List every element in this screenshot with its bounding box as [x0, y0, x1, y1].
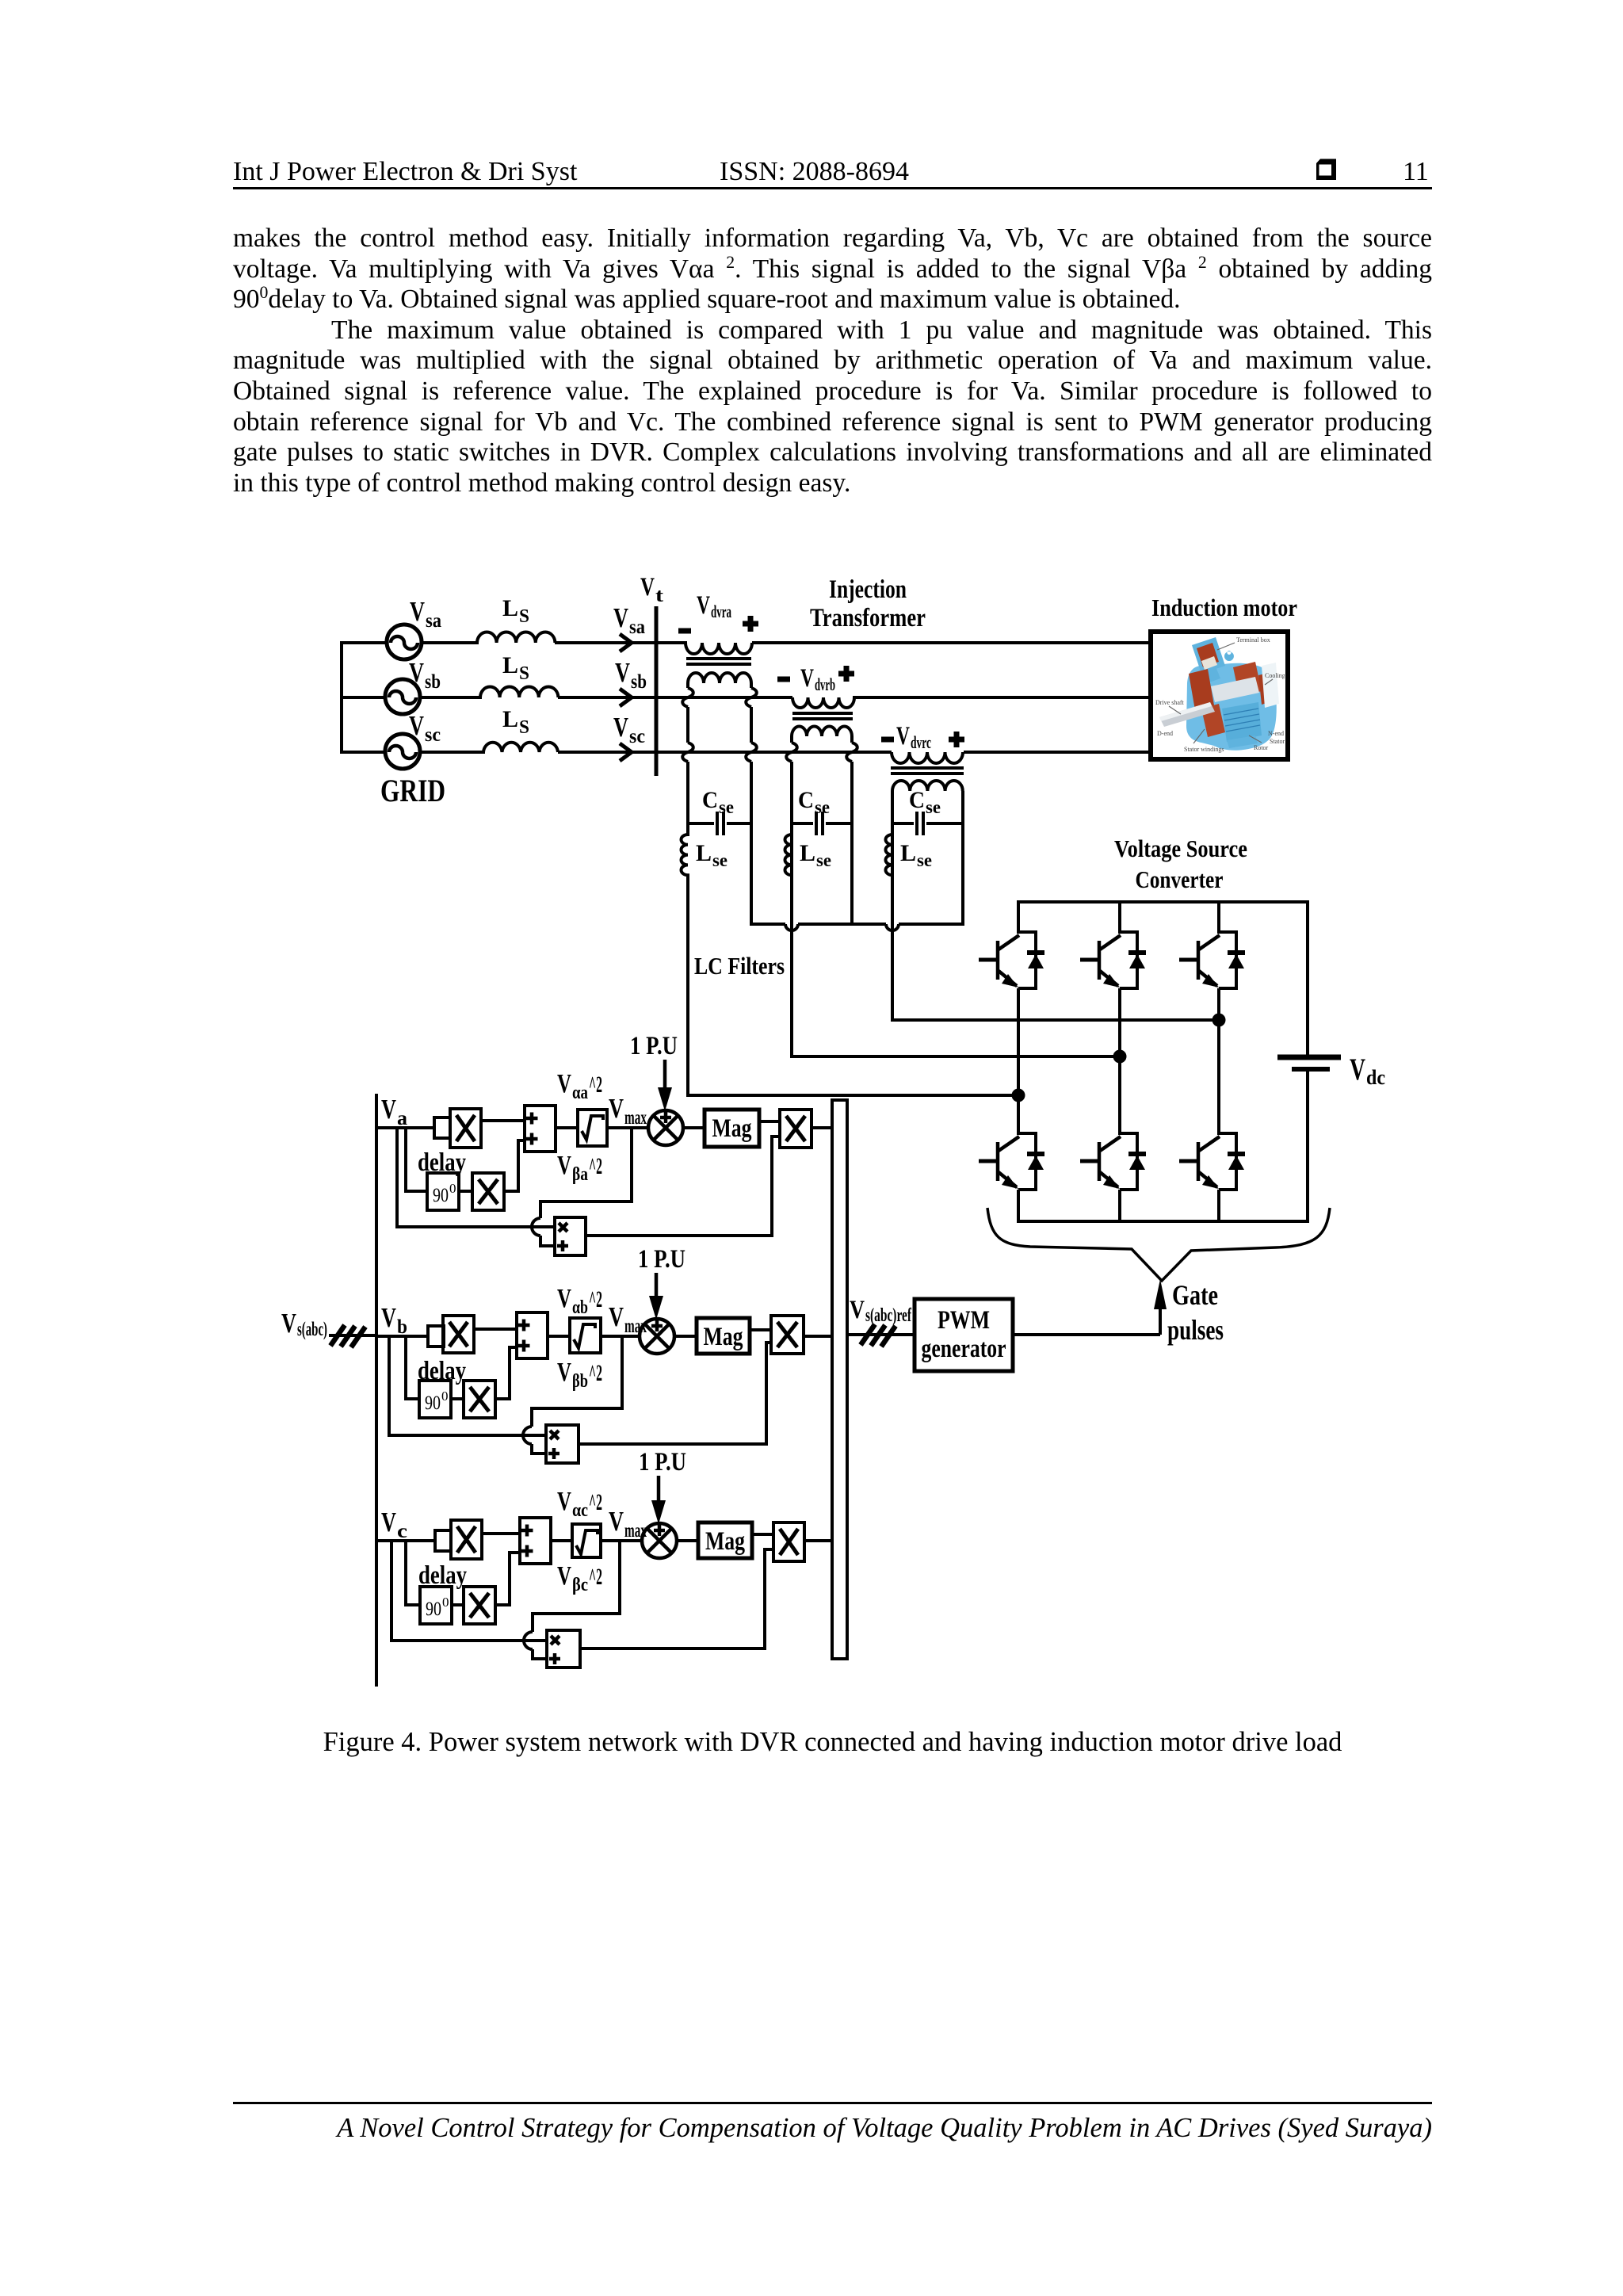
battery Vdc plate short — [1292, 1067, 1330, 1072]
node Vt bus bar — [655, 606, 659, 776]
transformer T2 secondary — [792, 727, 852, 737]
label minus Vdvrc — [881, 737, 894, 743]
block Mag b — [697, 1318, 750, 1354]
svg-text:c: c — [397, 1521, 407, 1542]
IGBT Q5 with diode — [1179, 932, 1245, 988]
wire Va from bus — [376, 1126, 434, 1129]
junction dot VSC leg2 — [1113, 1050, 1127, 1064]
wire phase B to motor — [853, 696, 1152, 699]
svg-text:Drive shaft: Drive shaft — [1155, 699, 1185, 706]
wire feedback out c — [580, 1549, 773, 1648]
arrow chevron Vsb — [620, 689, 632, 706]
wire tap2 c — [391, 1541, 547, 1641]
svg-text:L: L — [502, 595, 518, 621]
svg-text:Mag: Mag — [705, 1527, 745, 1556]
svg-text:se: se — [719, 797, 734, 817]
svg-text:a: a — [397, 1108, 408, 1129]
svg-text:s(abc): s(abc) — [297, 1319, 327, 1340]
delay 90 block b — [419, 1381, 451, 1418]
svg-text:S: S — [519, 606, 529, 627]
wire control left bus — [375, 1094, 378, 1687]
transformer T2 primary — [792, 697, 854, 708]
wire VSC top bus — [1017, 900, 1309, 904]
svg-text:Voltage Source: Voltage Source — [1114, 835, 1247, 862]
svg-text:V: V — [557, 1487, 571, 1516]
svg-text:βa: βa — [572, 1164, 588, 1185]
summer block c — [520, 1518, 551, 1564]
wire T1 secondary right leg — [746, 683, 757, 926]
summer block b — [517, 1312, 548, 1358]
transformer T1 core — [686, 657, 751, 660]
transformer T3 secondary — [892, 781, 963, 791]
port stub b — [428, 1326, 444, 1347]
wire LC B to VSC leg2 — [790, 1055, 1120, 1058]
svg-text:Transformer: Transformer — [810, 604, 926, 632]
wire phase A to transformer — [555, 641, 687, 644]
svg-text:V: V — [609, 1301, 624, 1332]
wire T3 secondary left leg — [891, 791, 894, 1022]
svg-text:V: V — [381, 1507, 396, 1538]
svg-text:Mag: Mag — [712, 1114, 752, 1143]
slash marks Vsabc — [330, 1325, 365, 1347]
svg-text:se: se — [926, 797, 941, 817]
svg-text:^2: ^2 — [589, 1489, 602, 1515]
svg-text:S: S — [519, 663, 529, 684]
arrow 1PU c — [657, 1476, 661, 1502]
wire X2-busbar c — [804, 1539, 832, 1542]
voltage source Vsa — [387, 625, 422, 659]
svg-text:V: V — [609, 1093, 624, 1124]
wire phase C to motor — [964, 751, 1152, 754]
wire circle-Mag c — [677, 1539, 698, 1542]
footer rule — [233, 2102, 1432, 2104]
svg-text:sb: sb — [631, 671, 647, 693]
block Mag a — [705, 1110, 759, 1147]
wire VSC column Q4 bottom — [1118, 1190, 1121, 1221]
transformer T2 core — [792, 712, 853, 715]
wire VSC right bus lower — [1306, 1072, 1309, 1223]
inductor Lse phase B — [785, 835, 792, 875]
label minus Vdvrb — [777, 677, 790, 682]
svg-text:dc: dc — [1366, 1066, 1385, 1089]
svg-text:V: V — [615, 657, 630, 688]
wire tap2 b — [389, 1336, 546, 1435]
sqrt block c — [572, 1524, 601, 1557]
block Mag c — [698, 1522, 752, 1558]
svg-text:se: se — [712, 850, 727, 870]
arrow chevron Vsa — [620, 634, 632, 651]
svg-text:V: V — [281, 1308, 296, 1339]
arrow gate pulses — [1159, 1306, 1162, 1335]
svg-text:sb: sb — [425, 671, 441, 693]
multiplier X1 b — [443, 1316, 474, 1353]
wire VSC column Q3 top — [1118, 902, 1121, 934]
wire X1-sum c — [482, 1532, 520, 1535]
transformer T3 primary — [892, 752, 963, 763]
IGBT Q2 with diode — [979, 1133, 1044, 1190]
header journal name — [233, 157, 577, 187]
svg-text:Cooling fan: Cooling fan — [1265, 672, 1295, 679]
wire phase C source stub — [340, 751, 385, 754]
inductor Lse phase C — [885, 835, 892, 875]
wire VSC column Q1 mid — [1017, 988, 1020, 1135]
svg-text:Stator windings: Stator windings — [1184, 746, 1224, 753]
wire VSC column Q1 top — [1017, 902, 1020, 934]
svg-text:Injection: Injection — [829, 575, 907, 604]
svg-text:V: V — [409, 657, 424, 688]
wire LC A to VSC leg1 — [686, 1094, 1018, 1097]
svg-text:D-end: D-end — [1157, 730, 1173, 737]
svg-text:V: V — [557, 1151, 571, 1180]
svg-text:V: V — [410, 596, 425, 627]
wire X2-busbar a — [811, 1126, 832, 1129]
arrow 1PU a — [663, 1060, 667, 1089]
wire phase A source stub — [340, 641, 387, 644]
wire Vb from bus — [376, 1335, 428, 1338]
body paragraph 1 — [233, 223, 1432, 499]
svg-text:L: L — [502, 706, 518, 732]
wire sum-sqrt a — [556, 1126, 578, 1129]
arrow chevron Vsc — [620, 743, 632, 761]
svg-text:Induction motor: Induction motor — [1151, 594, 1297, 621]
svg-text:L: L — [696, 840, 712, 866]
wire X3-sum a — [504, 1140, 525, 1191]
wire X2-busbar b — [804, 1335, 832, 1338]
transformer T3 core — [891, 766, 964, 770]
svg-text:^2: ^2 — [589, 1564, 602, 1590]
svg-text:dvra: dvra — [711, 602, 731, 621]
wire T1 secondary left leg — [682, 683, 693, 825]
multiply-add block c — [547, 1630, 580, 1668]
wire T2 secondary right leg — [846, 736, 857, 926]
svg-text:V: V — [640, 573, 655, 602]
wire X3-sum b — [495, 1347, 517, 1399]
inductor LS phase C — [483, 743, 558, 752]
wire Mag-X2 c — [752, 1533, 773, 1536]
inductor LS phase B — [480, 687, 558, 697]
multiplier X2 a — [780, 1110, 811, 1148]
wire VSC right bus upper — [1306, 900, 1309, 1057]
svg-text:max: max — [624, 1107, 647, 1129]
multiplier X3 c — [464, 1587, 495, 1624]
svg-text:sc: sc — [629, 726, 645, 747]
svg-text:se: se — [816, 850, 831, 870]
transformer T1 secondary — [688, 673, 751, 683]
svg-text:V: V — [613, 712, 628, 743]
wire Vmax feedback c — [524, 1541, 620, 1659]
wire Vmax feedback a — [532, 1128, 632, 1246]
wire Vc from bus — [376, 1539, 435, 1542]
svg-text:V: V — [557, 1358, 571, 1387]
delay 90 block c — [420, 1587, 452, 1624]
capacitor Cse phase B — [792, 812, 852, 835]
svg-text:t: t — [655, 586, 663, 606]
arrow 1PU b — [655, 1273, 659, 1297]
wire 90-X3 b — [451, 1397, 464, 1400]
svg-text:0: 0 — [441, 1389, 449, 1404]
svg-text:Terminal box: Terminal box — [1236, 636, 1270, 644]
svg-text:b: b — [397, 1316, 407, 1338]
capacitor Cse phase A — [688, 812, 751, 835]
svg-text:C: C — [798, 787, 814, 813]
svg-text:90: 90 — [425, 1392, 441, 1414]
svg-text:αc: αc — [572, 1500, 588, 1521]
wire phase B source stub — [340, 696, 385, 699]
inductor Lse phase A — [681, 825, 688, 1097]
induction motor image box — [1151, 632, 1295, 759]
wire feedback out a — [586, 1137, 780, 1236]
svg-text:Rotor: Rotor — [1254, 744, 1269, 751]
svg-text:V: V — [896, 722, 910, 751]
label plus Vdvrc — [949, 732, 964, 747]
svg-text:sa: sa — [426, 610, 441, 632]
delay 90 block a — [427, 1173, 459, 1210]
wire Vmax feedback b — [523, 1336, 622, 1454]
port stub a — [434, 1117, 450, 1138]
svg-text:V: V — [850, 1296, 865, 1324]
label plus Vdvrb — [838, 666, 854, 682]
transformer T1 primary — [685, 643, 752, 654]
junction dot VSC leg1 — [1012, 1089, 1025, 1102]
multiplier X3 a — [472, 1173, 504, 1210]
wire T2 secondary left leg — [786, 736, 797, 1058]
svg-text:0: 0 — [442, 1595, 449, 1610]
wire tap1 b — [406, 1336, 419, 1399]
svg-text:dvrc: dvrc — [911, 732, 931, 752]
svg-text:V: V — [381, 1302, 396, 1333]
svg-text:V: V — [609, 1506, 624, 1537]
multiplier X1 c — [451, 1520, 482, 1559]
svg-text:Gate: Gate — [1172, 1279, 1218, 1311]
multiplier circle c — [642, 1523, 677, 1558]
header page number — [1403, 157, 1429, 187]
svg-text:dvrb: dvrb — [815, 674, 835, 694]
svg-text:Mag: Mag — [704, 1323, 743, 1351]
svg-text:^2: ^2 — [589, 1286, 602, 1312]
svg-text:PWM: PWM — [938, 1306, 990, 1335]
header rule — [233, 187, 1432, 189]
svg-text:sa: sa — [629, 617, 645, 638]
inductor LS phase A — [477, 632, 555, 644]
svg-text:C: C — [702, 787, 718, 813]
wire X1-sum a — [481, 1119, 525, 1122]
multiplier circle a — [648, 1110, 683, 1145]
junction dot VSC leg3 — [1212, 1014, 1226, 1027]
svg-text:V: V — [557, 1069, 571, 1098]
wire T3 secondary right leg — [961, 791, 964, 926]
svg-text:generator: generator — [922, 1335, 1006, 1363]
multiply-add block b — [546, 1425, 579, 1463]
svg-text:L: L — [502, 652, 518, 678]
wire VSC column Q5 mid — [1217, 988, 1220, 1135]
wire LC C to VSC leg3 — [891, 1018, 1219, 1022]
battery Vdc plate long — [1277, 1055, 1341, 1060]
wire sum-sqrt b — [548, 1335, 570, 1338]
svg-text:0: 0 — [449, 1181, 456, 1196]
wire VSC column Q5 top — [1217, 902, 1220, 934]
svg-text:βc: βc — [572, 1575, 588, 1595]
wire phase B to inductor — [420, 696, 482, 699]
svg-text:V: V — [800, 664, 814, 693]
svg-text:se: se — [815, 797, 830, 817]
svg-text:90: 90 — [426, 1599, 441, 1620]
header ISSN — [720, 157, 909, 187]
wire Mag-X2 b — [750, 1328, 771, 1331]
summer block a — [525, 1106, 556, 1152]
wire 90-X3 c — [452, 1603, 464, 1606]
port stub c — [435, 1530, 451, 1551]
footer text — [233, 2113, 1432, 2144]
svg-text:s(abc)ref: s(abc)ref — [865, 1305, 912, 1326]
wire VSC column Q3 mid — [1118, 988, 1121, 1135]
wire tap1 c — [406, 1541, 420, 1605]
svg-text:se: se — [917, 850, 932, 870]
svg-text:L: L — [800, 840, 815, 866]
wire Vsabc to bus — [329, 1334, 376, 1337]
svg-text:αa: αa — [572, 1083, 588, 1103]
voltage source Vsc — [385, 734, 420, 769]
sqrt block b — [570, 1318, 601, 1353]
svg-text:Stator: Stator — [1270, 738, 1285, 745]
svg-text:N-end: N-end — [1268, 730, 1284, 737]
brace under VSC — [987, 1208, 1330, 1281]
header shadowed square icon — [1315, 158, 1338, 181]
svg-text:^2: ^2 — [589, 1072, 602, 1098]
IGBT Q1 with diode — [979, 932, 1044, 988]
multiplier X2 c — [773, 1522, 804, 1561]
wire Mag-X2 a — [759, 1120, 780, 1123]
label minus Vdvra — [678, 628, 691, 634]
multiplier X3 b — [464, 1381, 495, 1418]
wire sum-sqrt c — [551, 1539, 572, 1542]
svg-text:V: V — [409, 710, 424, 741]
svg-text:S: S — [519, 717, 529, 738]
svg-text:Converter: Converter — [1136, 865, 1224, 893]
wire phase C to transformer — [558, 751, 892, 754]
wire phase C to inductor — [420, 751, 485, 754]
svg-text:L: L — [900, 840, 916, 866]
wire X1-sum b — [474, 1328, 517, 1331]
wire PWM to gate — [1013, 1333, 1160, 1336]
reference bus bar — [832, 1100, 847, 1659]
svg-text:1 P.U: 1 P.U — [639, 1448, 686, 1477]
svg-text:V: V — [557, 1284, 571, 1313]
wire circle-Mag b — [674, 1335, 697, 1338]
IGBT Q6 with diode — [1179, 1133, 1245, 1190]
svg-text:^2: ^2 — [589, 1153, 602, 1179]
wire sqrt-circle b — [601, 1335, 640, 1338]
wire VSC column Q6 bottom — [1217, 1190, 1220, 1221]
wire sqrt-circle a — [607, 1126, 648, 1129]
svg-text:C: C — [909, 787, 925, 813]
wire phase A to motor — [752, 641, 1152, 644]
multiplier circle b — [640, 1319, 674, 1354]
wire bus to PWM — [847, 1333, 915, 1336]
sqrt block a — [578, 1110, 607, 1146]
multiply-add block a — [555, 1217, 586, 1255]
IGBT Q4 with diode — [1080, 1133, 1146, 1190]
wire X3-sum c — [495, 1553, 520, 1605]
svg-text:sc: sc — [425, 724, 441, 746]
wire phase A to inductor — [422, 641, 479, 644]
label plus Vdvra — [743, 616, 758, 632]
svg-text:^2: ^2 — [589, 1360, 602, 1386]
svg-text:pulses: pulses — [1167, 1314, 1224, 1346]
svg-text:LC Filters: LC Filters — [694, 952, 785, 980]
wire feedback out b — [579, 1343, 771, 1444]
wire VSC column Q2 bottom — [1017, 1190, 1020, 1221]
IGBT Q3 with diode — [1080, 932, 1146, 988]
capacitor Cse phase C — [892, 812, 963, 835]
svg-text:V: V — [557, 1561, 571, 1591]
svg-text:αb: αb — [572, 1297, 588, 1318]
svg-text:1 P.U: 1 P.U — [638, 1245, 685, 1274]
svg-text:V: V — [1350, 1052, 1365, 1087]
multiplier X2 b — [771, 1316, 804, 1354]
wire 90-X3 a — [459, 1190, 472, 1193]
svg-text:GRID: GRID — [380, 773, 445, 808]
block PWM generator — [915, 1299, 1013, 1371]
figure caption — [233, 1727, 1432, 1758]
multiplier X1 a — [450, 1109, 481, 1148]
wire tap2 a — [397, 1128, 555, 1227]
wire sqrt-circle c — [601, 1539, 642, 1542]
svg-text:V: V — [613, 602, 628, 633]
wire circle-Mag a — [683, 1126, 705, 1129]
svg-text:βb: βb — [572, 1371, 588, 1392]
svg-text:1 P.U: 1 P.U — [630, 1032, 678, 1060]
wire tap1 a — [406, 1128, 427, 1191]
wire VSC bottom bus — [1017, 1220, 1309, 1223]
svg-text:V: V — [697, 591, 710, 620]
wire phase B to transformer — [558, 696, 792, 699]
wire T1 right leg bus — [751, 924, 964, 930]
wire grid left bus — [340, 641, 343, 754]
voltage source Vsb — [385, 679, 420, 714]
svg-text:90: 90 — [433, 1185, 449, 1206]
svg-text:V: V — [381, 1094, 396, 1125]
slash marks PWM input — [861, 1324, 896, 1347]
